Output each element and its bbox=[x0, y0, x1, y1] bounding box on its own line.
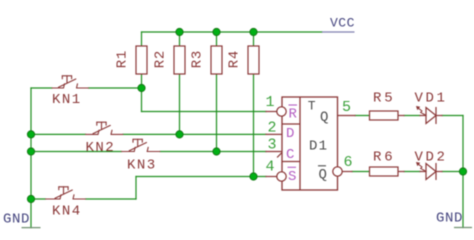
svg-text:3: 3 bbox=[267, 137, 276, 154]
svg-text:D1: D1 bbox=[309, 139, 328, 155]
svg-text:C: C bbox=[286, 147, 294, 163]
svg-text:KN1: KN1 bbox=[52, 92, 82, 108]
svg-text:2: 2 bbox=[267, 120, 276, 137]
svg-text:Q: Q bbox=[319, 167, 327, 183]
svg-text:5: 5 bbox=[342, 99, 351, 116]
svg-text:Q: Q bbox=[320, 110, 328, 126]
svg-text:R6: R6 bbox=[373, 150, 395, 166]
svg-text:D: D bbox=[286, 126, 294, 142]
svg-text:1: 1 bbox=[265, 94, 274, 111]
svg-text:GND: GND bbox=[436, 211, 463, 227]
svg-text:VCC: VCC bbox=[330, 16, 355, 31]
svg-text:KN2: KN2 bbox=[86, 140, 116, 156]
svg-text:KN4: KN4 bbox=[52, 204, 82, 220]
svg-text:VD1: VD1 bbox=[415, 91, 448, 107]
svg-text:R3: R3 bbox=[190, 50, 206, 68]
svg-text:VD2: VD2 bbox=[415, 150, 448, 166]
svg-text:KN3: KN3 bbox=[127, 158, 157, 174]
svg-text:6: 6 bbox=[344, 154, 353, 171]
svg-text:GND: GND bbox=[3, 212, 30, 228]
svg-text:T: T bbox=[308, 99, 316, 114]
svg-text:S: S bbox=[288, 169, 296, 185]
svg-text:R5: R5 bbox=[373, 91, 395, 107]
svg-text:R: R bbox=[289, 107, 298, 123]
svg-text:R4: R4 bbox=[227, 50, 243, 68]
svg-text:4: 4 bbox=[265, 159, 274, 176]
svg-text:R1: R1 bbox=[115, 50, 131, 68]
svg-text:R2: R2 bbox=[153, 50, 169, 68]
